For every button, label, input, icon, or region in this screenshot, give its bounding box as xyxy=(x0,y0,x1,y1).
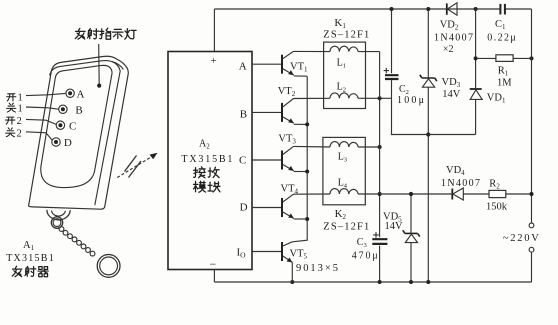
RF transmission arrow xyxy=(117,157,152,178)
module label 模块 xyxy=(194,181,206,192)
svg-text:D: D xyxy=(240,202,248,214)
svg-text:C: C xyxy=(239,154,246,166)
wire 关1 to button B xyxy=(26,107,59,109)
capacitor C3 polarity + xyxy=(373,232,379,238)
transistor VT3 xyxy=(278,134,296,171)
AC terminal lower xyxy=(529,247,534,252)
keyring lug outer arc xyxy=(47,210,70,220)
module box xyxy=(168,52,252,270)
junction VT2 emitter xyxy=(305,122,309,126)
wire pin C to VT3 base xyxy=(252,159,283,161)
wire module - to bottom rail xyxy=(213,270,215,283)
svg-text:VD4: VD4 xyxy=(446,165,465,177)
svg-text:D: D xyxy=(64,137,72,149)
svg-text:TX315B1: TX315B1 xyxy=(181,154,232,165)
junction L3 / feed line xyxy=(378,145,382,149)
zener diode VD5 xyxy=(403,230,420,242)
middle supply wire xyxy=(358,193,531,195)
svg-text:IO: IO xyxy=(237,247,247,260)
right rail xyxy=(531,9,533,282)
svg-text:1: 1 xyxy=(18,104,23,115)
junction VD5 top xyxy=(409,192,413,196)
resistor R2 xyxy=(489,190,506,197)
junction VD3 branch top rail xyxy=(426,7,430,11)
wire C2/VD1 bottom link xyxy=(428,134,475,136)
svg-text:+: + xyxy=(211,55,217,67)
svg-text:1: 1 xyxy=(18,93,23,104)
keyfob outer body outline xyxy=(29,56,129,209)
junction VT4 emitter xyxy=(305,217,309,221)
svg-text:B: B xyxy=(75,105,82,117)
svg-text:A1: A1 xyxy=(23,240,35,252)
svg-text:470μ: 470μ xyxy=(352,250,378,261)
VD1 branch wire xyxy=(475,9,477,135)
top rail xyxy=(214,8,531,10)
svg-text:1N4007: 1N4007 xyxy=(441,178,480,189)
junction VD3 branch bottom rail xyxy=(426,280,430,284)
wire R1 row xyxy=(476,57,532,59)
svg-text:100μ: 100μ xyxy=(397,95,424,106)
junction VD5 bottom rail xyxy=(409,280,413,284)
button B xyxy=(59,105,67,113)
svg-text:2: 2 xyxy=(17,116,22,127)
zener diode VD3 xyxy=(420,75,437,87)
RF slash 2 xyxy=(125,156,137,172)
wire L2 right end to C2 branch xyxy=(358,97,391,99)
diode VD1 xyxy=(470,89,483,99)
capacitor C2 branch wire xyxy=(392,9,429,135)
svg-text:VD1: VD1 xyxy=(487,92,506,104)
transistor VT1 xyxy=(282,51,308,75)
svg-text:VD3: VD3 xyxy=(442,77,461,89)
svg-text:14V: 14V xyxy=(385,221,404,232)
module label 接收 xyxy=(194,167,206,178)
common emitter bus down to VT5 collector xyxy=(292,76,307,242)
wire pin D to VT4 base xyxy=(252,207,283,209)
relay K2 box xyxy=(323,137,365,204)
leader line from label to indicator lamp xyxy=(98,44,101,85)
svg-text:2: 2 xyxy=(17,128,22,139)
junction VT3 emitter xyxy=(305,170,309,174)
relay K1 box xyxy=(324,42,366,108)
resistor R1 xyxy=(496,55,513,62)
coil L4 xyxy=(330,189,358,194)
coil L1 xyxy=(330,46,358,51)
button A xyxy=(66,89,74,97)
keyfob top-surface lip line xyxy=(50,61,121,206)
wire VT2 emitter xyxy=(294,123,307,125)
junction feed line / bottom rail xyxy=(378,280,382,284)
wire VT2 collector to relay coil L2 xyxy=(294,97,331,99)
svg-text:ZS–12F1: ZS–12F1 xyxy=(323,30,369,41)
transistor VT5 xyxy=(282,242,308,263)
relay feed vertical line xyxy=(379,52,381,282)
wire VT1 emitter xyxy=(294,75,307,77)
wire 开2 to button C xyxy=(26,119,56,124)
label 开2 xyxy=(6,117,15,124)
keyfob corner lip arc xyxy=(112,61,124,69)
svg-text:×2: ×2 xyxy=(443,44,454,55)
label 开1 xyxy=(7,94,16,101)
svg-text:B: B xyxy=(240,109,247,121)
wire VT4 emitter xyxy=(294,218,307,220)
wire L3 right end to feed line xyxy=(358,146,380,148)
junction L4 / middle wire xyxy=(378,192,382,196)
diode VD4 xyxy=(452,188,463,200)
chain links xyxy=(59,227,95,256)
svg-text:VT3: VT3 xyxy=(278,134,296,146)
wire 开1 to button A xyxy=(26,93,66,95)
svg-text:A2: A2 xyxy=(199,139,210,151)
wire VT5 emitter to bottom rail xyxy=(291,262,293,282)
svg-text:VT4: VT4 xyxy=(281,183,299,195)
label 关1 xyxy=(7,103,16,112)
zener VD5 branch xyxy=(410,194,412,282)
junction middle wire / right rail xyxy=(529,192,533,196)
wire L1 right end to feed line xyxy=(358,51,380,53)
junction R1 row left xyxy=(474,56,478,60)
transistor VT2 xyxy=(278,86,296,123)
wire VT4 collector to relay coil L4 xyxy=(294,193,331,195)
zener VD3 branch wire xyxy=(427,9,429,282)
svg-text:TX315B1: TX315B1 xyxy=(6,253,54,264)
junction C2 to VD3 branch xyxy=(426,132,430,136)
chain big ring xyxy=(97,255,120,278)
indicator lamp dot on keyfob face xyxy=(97,84,101,88)
capacitor C2 polarity + xyxy=(384,68,389,73)
capacitor C3 plates xyxy=(372,239,387,244)
svg-text:VT5: VT5 xyxy=(290,248,308,260)
svg-text:L2: L2 xyxy=(337,82,346,94)
wire VT3 emitter xyxy=(294,171,307,173)
svg-text:14V: 14V xyxy=(442,89,461,100)
svg-text:L4: L4 xyxy=(338,177,348,189)
diode VD2 xyxy=(447,3,457,15)
svg-text:150k: 150k xyxy=(486,202,508,213)
svg-text:R1: R1 xyxy=(498,66,509,78)
bottom rail xyxy=(214,281,531,283)
svg-text:R2: R2 xyxy=(489,178,500,190)
wire module + to top rail xyxy=(213,9,215,52)
button C xyxy=(56,121,64,129)
svg-text:ZS–12F1: ZS–12F1 xyxy=(323,222,369,233)
wire pin B to VT2 base xyxy=(252,111,283,113)
junction VD2/C1 node on top rail xyxy=(474,7,478,11)
keyring small ring xyxy=(51,217,62,228)
svg-text:−: − xyxy=(210,257,217,271)
wire pin A to VT1 base xyxy=(252,63,283,65)
svg-text:C3: C3 xyxy=(357,237,367,249)
wire pin IO to VT5 base xyxy=(252,251,283,253)
svg-text:VD2: VD2 xyxy=(440,20,459,32)
svg-text:C: C xyxy=(69,121,76,133)
junction R1 row right xyxy=(530,56,534,60)
coil L2 xyxy=(330,93,358,98)
svg-text:A: A xyxy=(77,89,85,101)
svg-text:VT2: VT2 xyxy=(278,86,296,98)
coil L3 xyxy=(330,142,358,147)
wire 关2 to button D xyxy=(26,132,52,140)
label 关2 xyxy=(6,128,15,137)
wire VT1 collector to relay coil L1 xyxy=(294,50,331,52)
junction L2 / feed line xyxy=(378,96,382,100)
label 发射指示灯 (transmit indicator lamp) xyxy=(75,28,136,39)
capacitor C2 plates xyxy=(385,75,399,79)
svg-text:0.22μ: 0.22μ xyxy=(487,33,516,44)
junction C2 branch on top rail xyxy=(390,7,394,11)
svg-text:L1: L1 xyxy=(337,57,346,69)
wire VT3 collector to relay coil L3 xyxy=(294,145,331,148)
svg-text:1M: 1M xyxy=(497,77,512,88)
AC terminal upper xyxy=(529,223,534,228)
svg-text:~220V: ~220V xyxy=(503,233,539,244)
svg-text:K2: K2 xyxy=(335,208,347,221)
svg-text:C1: C1 xyxy=(495,19,506,31)
svg-text:K1: K1 xyxy=(334,17,346,30)
svg-text:VT1: VT1 xyxy=(290,61,308,73)
keyfob front panel inset outline xyxy=(41,65,112,187)
capacitor C1 plates xyxy=(500,4,505,15)
RF slash 1 xyxy=(129,161,142,178)
keyring lug inner arc xyxy=(52,210,66,216)
svg-text:L3: L3 xyxy=(338,151,347,163)
junction VT5 emitter on bottom rail xyxy=(290,280,294,284)
svg-text:A: A xyxy=(239,61,247,73)
button D xyxy=(52,138,60,146)
transistor VT4 xyxy=(281,183,299,218)
label 发射器 xyxy=(12,266,48,277)
svg-text:9013×5: 9013×5 xyxy=(296,263,338,274)
svg-text:1N4007: 1N4007 xyxy=(434,33,473,44)
